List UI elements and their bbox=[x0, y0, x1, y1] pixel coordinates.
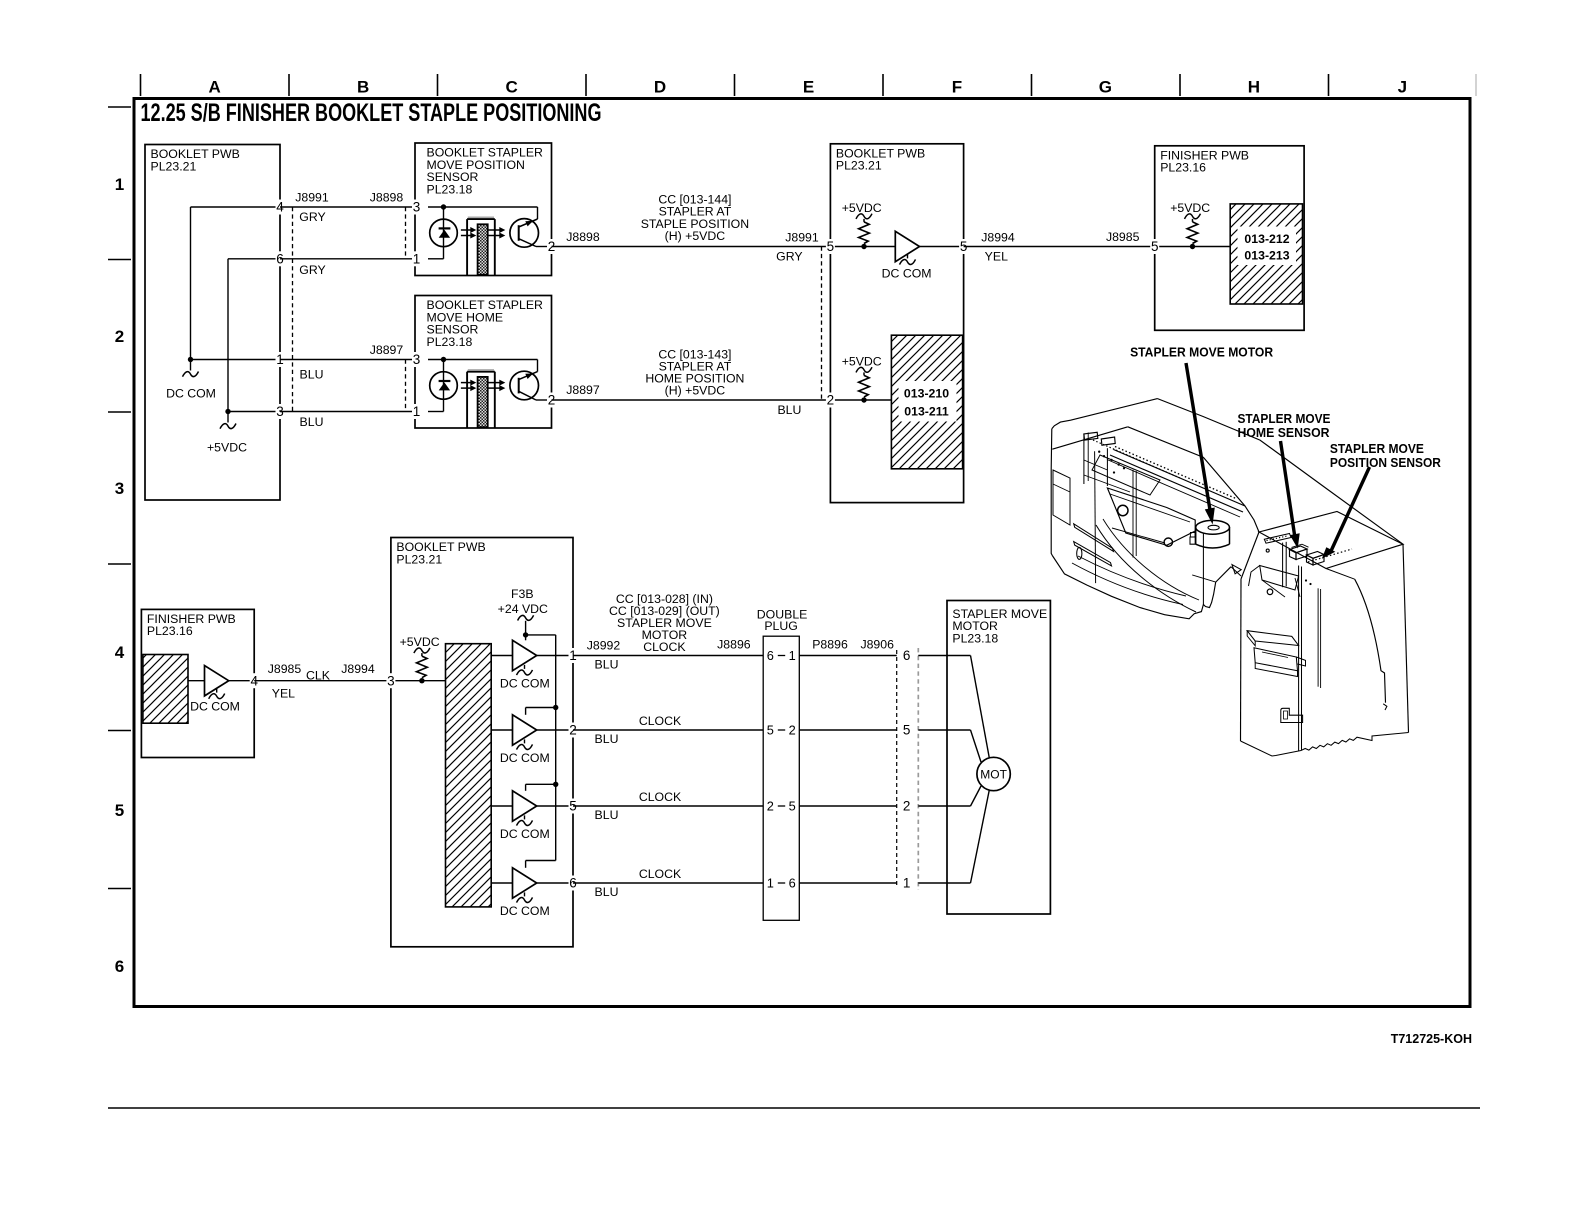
LED (emitter diode) of booklet stapler move home sensor Q2 bbox=[430, 372, 458, 400]
stapler move motor MOT1 box bbox=[947, 601, 1050, 915]
svg-text:J8994: J8994 bbox=[981, 230, 1015, 244]
junction: booklet stapler move home sensor Q2 LED anode node bbox=[441, 357, 446, 362]
wire: hatch block to buffer U7 bbox=[491, 882, 512, 884]
booklet PWB PL23.21 (left) bbox=[145, 145, 280, 501]
svg-text:2: 2 bbox=[903, 799, 911, 814]
wire: double plug to P8896 (row 2) bbox=[799, 805, 896, 807]
pin 5 left of booklet PWB right bbox=[826, 239, 835, 254]
svg-text:CLOCK: CLOCK bbox=[639, 790, 682, 804]
buffer U4 bbox=[513, 640, 537, 670]
connector J8991 boundary (dashed) bbox=[293, 191, 329, 412]
label J8896 bbox=[717, 637, 751, 651]
label BLU (pin1 wire) bbox=[300, 367, 324, 381]
svg-text:PL23.18: PL23.18 bbox=[952, 631, 998, 645]
label BLU (clock wire 4) bbox=[595, 885, 619, 899]
border frame bbox=[134, 99, 1470, 1007]
ground DC COM (buffer U5) bbox=[500, 739, 550, 765]
label J8992 bbox=[587, 638, 621, 652]
column tick marks bbox=[141, 74, 1477, 96]
label J8985 (wire) bbox=[1106, 230, 1140, 244]
double plug pins 6-1 bbox=[766, 648, 797, 663]
svg-text:J8992: J8992 bbox=[587, 638, 621, 652]
svg-text:013-213: 013-213 bbox=[1244, 249, 1289, 263]
svg-text:5: 5 bbox=[827, 239, 835, 254]
svg-text:1: 1 bbox=[903, 876, 911, 891]
wire: +24V feed to buffer U5 bbox=[526, 708, 556, 715]
junction: pin6/pin3 +5VDC node bbox=[225, 409, 230, 414]
svg-text:GRY: GRY bbox=[299, 210, 325, 224]
callout: stapler move motor bbox=[1130, 344, 1274, 524]
pin 2 of J8906 bbox=[903, 799, 911, 814]
svg-text:CLOCK: CLOCK bbox=[639, 714, 682, 728]
resistor R4 +5VDC pull-up bbox=[400, 635, 440, 683]
junction: +24V rail node B bbox=[553, 705, 558, 710]
svg-text:CLOCK: CLOCK bbox=[643, 640, 686, 654]
finisher PWB PL23.16 (bottom left) bbox=[141, 609, 254, 757]
buffer U3 bbox=[205, 666, 229, 696]
svg-text:6: 6 bbox=[767, 648, 774, 663]
pin 3 of J8994 bbox=[386, 673, 395, 688]
pin 3 of booklet stapler move position sensor Q1 bbox=[412, 200, 421, 215]
svg-text:CLK: CLK bbox=[306, 669, 331, 683]
label GRY (pin6 wire) bbox=[299, 263, 325, 277]
svg-text:J8897: J8897 bbox=[370, 343, 404, 357]
svg-text:MOT: MOT bbox=[980, 768, 1007, 782]
svg-text:BLU: BLU bbox=[595, 885, 619, 899]
resistor R2 +5VDC pull-up bbox=[842, 354, 882, 402]
svg-text:PL23.21: PL23.21 bbox=[836, 159, 882, 173]
resistor R3 +5VDC pull-up bbox=[1170, 201, 1210, 249]
svg-text:PL23.21: PL23.21 bbox=[396, 552, 442, 566]
pin 1 of booklet stapler move home sensor Q2 bbox=[412, 404, 421, 419]
label BLU (clock wire 2) bbox=[595, 732, 619, 746]
wire: motor lead 6 bbox=[947, 656, 990, 760]
svg-text:1: 1 bbox=[789, 648, 796, 663]
svg-text:3: 3 bbox=[115, 479, 124, 498]
svg-text:H: H bbox=[1248, 78, 1260, 97]
svg-text:E: E bbox=[803, 78, 814, 97]
svg-text:D: D bbox=[654, 78, 666, 97]
interrupter flag of booklet stapler move home sensor Q2 bbox=[478, 377, 488, 427]
wire: J8992-5 to double plug (BLU) bbox=[573, 805, 763, 807]
svg-text:J8906: J8906 bbox=[860, 637, 894, 651]
net label CLK bbox=[306, 669, 331, 683]
svg-text:STAPLER MOVE: STAPLER MOVE bbox=[1238, 411, 1331, 426]
pin 6 of J8991 bbox=[276, 251, 285, 266]
booklet stapler move home sensor Q2 box bbox=[415, 296, 552, 429]
booklet PWB PL23.21 (right) bbox=[830, 144, 963, 503]
label YEL (wire) bbox=[985, 249, 1008, 263]
svg-text:PL23.16: PL23.16 bbox=[1160, 161, 1206, 175]
svg-text:PL23.21: PL23.21 bbox=[151, 159, 197, 173]
svg-text:2: 2 bbox=[789, 723, 796, 738]
phototransistor of booklet stapler move home sensor Q2 bbox=[510, 360, 552, 401]
row numbers 1-6 bbox=[115, 175, 125, 976]
wire: +24V feed to buffer U6 bbox=[526, 784, 556, 791]
svg-text:1: 1 bbox=[413, 252, 421, 267]
label BLU (clock wire 1) bbox=[595, 657, 619, 671]
node CC [013-143] home position annotation bbox=[645, 347, 744, 397]
wire: double plug to P8896 (row 5) bbox=[799, 729, 896, 731]
svg-text:J8898: J8898 bbox=[370, 191, 404, 205]
wire: +24V rail bbox=[526, 635, 556, 861]
pin 4 of J8985 bbox=[250, 673, 259, 688]
wire: pin4 net (GRY) inside booklet PWB bbox=[191, 207, 281, 360]
wire: hatch block to buffer U6 bbox=[491, 805, 512, 807]
svg-text:P8896: P8896 bbox=[812, 637, 848, 651]
svg-text:1: 1 bbox=[413, 404, 421, 419]
mechanical view: finisher/stapler assembly bbox=[1051, 399, 1408, 756]
double plug pins 1-6 bbox=[766, 876, 797, 891]
svg-text:3: 3 bbox=[387, 673, 395, 688]
callout: stapler move position sensor bbox=[1322, 441, 1442, 559]
svg-text:+5VDC: +5VDC bbox=[842, 354, 882, 368]
wire: hatch block to buffer U5 bbox=[491, 729, 512, 731]
svg-text:+5VDC: +5VDC bbox=[400, 635, 440, 649]
svg-text:BLU: BLU bbox=[300, 415, 324, 429]
svg-text:B: B bbox=[357, 78, 369, 97]
interrupter flag of booklet stapler move position sensor Q1 bbox=[478, 224, 488, 274]
wire: pin3 to logic block bbox=[392, 680, 446, 682]
wire: J8994-5 to J8985-5 (YEL) bbox=[964, 246, 1155, 248]
svg-text:3: 3 bbox=[413, 200, 421, 215]
pin 6 of J8992 bbox=[569, 876, 578, 891]
svg-text:6: 6 bbox=[903, 648, 911, 663]
junction: +24V rail node C bbox=[553, 782, 558, 787]
drawing number T712725-KOH bbox=[1391, 1032, 1472, 1046]
svg-text:PL23.18: PL23.18 bbox=[427, 182, 473, 196]
pin 5 of J8992 bbox=[569, 799, 578, 814]
svg-text:GRY: GRY bbox=[299, 263, 325, 277]
svg-text:12.25 S/B FINISHER BOOKLET STA: 12.25 S/B FINISHER BOOKLET STAPLE POSITI… bbox=[141, 99, 602, 127]
hatch logic block (center booklet PWB) bbox=[446, 644, 492, 907]
svg-text:DC COM: DC COM bbox=[500, 904, 550, 918]
svg-text:BLU: BLU bbox=[595, 808, 619, 822]
pin 2 of booklet stapler move home sensor Q2 bbox=[547, 393, 556, 408]
svg-text:2: 2 bbox=[767, 799, 774, 814]
pin 1 of J8992 bbox=[569, 648, 578, 663]
booklet stapler move position sensor Q1 box bbox=[415, 143, 552, 276]
wire: motor lead 1 bbox=[947, 789, 990, 883]
wire: buffer output to pin5 right bbox=[920, 246, 964, 248]
buffer U7 bbox=[513, 868, 537, 898]
wire: buffer U3 output to pin4 bbox=[229, 680, 255, 682]
pin 2 of booklet stapler move position sensor Q1 bbox=[547, 239, 556, 254]
wire: J8991-4 to J8898-3 (GRY) bbox=[280, 206, 415, 208]
connector J8991 right boundary (dashed) bbox=[821, 247, 823, 401]
wire: motor lead 2 bbox=[947, 786, 981, 806]
wire: J8906-2 into motor box bbox=[918, 805, 947, 807]
svg-text:DC COM: DC COM bbox=[500, 827, 550, 841]
svg-text:+5VDC: +5VDC bbox=[1170, 201, 1210, 215]
wire: J8992-6 to double plug (BLU) bbox=[573, 882, 763, 884]
wire: buffer U7 output to pin 6 bbox=[537, 882, 573, 884]
svg-text:3: 3 bbox=[413, 352, 421, 367]
ground DC COM (buffer U2) bbox=[882, 254, 932, 280]
svg-text:013-211: 013-211 bbox=[904, 405, 949, 419]
connector P8896 boundary (dashed) bbox=[812, 637, 896, 888]
label J8994 (wire) bbox=[981, 230, 1015, 244]
wire: booklet stapler move home sensor Q2 LED cathode to pin1 bbox=[428, 360, 444, 412]
svg-text:DC COM: DC COM bbox=[166, 386, 216, 400]
ground DC COM (buffer U7) bbox=[500, 892, 550, 918]
svg-text:J8897: J8897 bbox=[566, 383, 600, 397]
svg-text:J8991: J8991 bbox=[785, 231, 819, 245]
row tick marks bbox=[108, 107, 131, 889]
svg-text:POSITION SENSOR: POSITION SENSOR bbox=[1330, 455, 1442, 470]
label J8994 (CLK wire) bbox=[341, 662, 375, 676]
ground DC COM (buffer U3) bbox=[190, 689, 240, 714]
svg-text:(H) +5VDC: (H) +5VDC bbox=[665, 229, 726, 243]
svg-text:J8896: J8896 bbox=[717, 637, 751, 651]
pin 5 of finisher PWB bbox=[1150, 239, 1159, 254]
wire: J8906-5 into motor box bbox=[918, 729, 947, 731]
svg-text:+5VDC: +5VDC bbox=[842, 201, 882, 215]
svg-text:6: 6 bbox=[789, 876, 796, 891]
wire: J8906-1 into motor box bbox=[918, 882, 947, 884]
svg-text:1: 1 bbox=[767, 876, 774, 891]
net label CLOCK (wire 3) bbox=[639, 790, 682, 804]
svg-text:4: 4 bbox=[115, 643, 125, 662]
svg-text:PL23.16: PL23.16 bbox=[147, 624, 193, 638]
svg-text:F3B: F3B bbox=[511, 587, 534, 601]
ground DC COM (buffer U4) bbox=[500, 665, 550, 691]
svg-text:DC COM: DC COM bbox=[500, 677, 550, 691]
svg-text:DC COM: DC COM bbox=[190, 700, 240, 714]
connector J8906 boundary (gray dashed) bbox=[860, 637, 918, 890]
resistor R1 +5VDC pull-up bbox=[842, 201, 882, 249]
column letters A-J bbox=[209, 78, 1407, 97]
svg-text:BLU: BLU bbox=[300, 367, 324, 381]
svg-text:5: 5 bbox=[1151, 239, 1159, 254]
wire: pin2 to fault box 013-210 bbox=[832, 399, 891, 401]
title bbox=[141, 99, 602, 127]
wire: pin1 net inside booklet PWB bbox=[191, 359, 281, 361]
buffer U5 bbox=[513, 715, 537, 745]
motor MOT symbol bbox=[977, 757, 1010, 790]
wire: +24V feed to buffer U7 bbox=[526, 861, 556, 868]
double plug pins 2-5 bbox=[766, 799, 797, 814]
svg-text:BLU: BLU bbox=[595, 732, 619, 746]
double plug pins 5-2 bbox=[766, 723, 797, 738]
pin 5 right of booklet PWB right bbox=[959, 239, 968, 254]
pin 1 of booklet stapler move position sensor Q1 bbox=[412, 251, 421, 266]
net label CLOCK (wire 4) bbox=[639, 867, 682, 881]
svg-text:5: 5 bbox=[903, 723, 911, 738]
label J8985 (CLK wire) bbox=[268, 662, 302, 676]
svg-text:2: 2 bbox=[827, 393, 835, 408]
pin 3 of J8991 bbox=[276, 404, 285, 419]
wire: booklet stapler move position sensor Q1 LED cathode to pin1 bbox=[428, 207, 444, 259]
power +5VDC (left booklet PWB) bbox=[207, 412, 247, 455]
label BLU (clock wire 3) bbox=[595, 808, 619, 822]
pin 3 of booklet stapler move home sensor Q2 bbox=[412, 352, 421, 367]
svg-text:C: C bbox=[505, 78, 517, 97]
node CC motor clock annotation bbox=[609, 592, 720, 654]
connector J8897 boundary (dashed) bbox=[370, 343, 406, 412]
svg-text:2: 2 bbox=[115, 327, 124, 346]
callout: stapler move home sensor bbox=[1238, 411, 1331, 549]
wire: J8991-6 to J8898-1 (GRY) bbox=[280, 258, 415, 260]
connector J8898 boundary (dashed) bbox=[370, 191, 406, 259]
svg-text:(H) +5VDC: (H) +5VDC bbox=[665, 383, 726, 397]
wire: hatch block to buffer U4 bbox=[491, 655, 512, 657]
finisher PWB PL23.16 (top right) bbox=[1155, 146, 1304, 330]
wire: J8992-2 to double plug (BLU) bbox=[573, 729, 763, 731]
label GRY (pin4 wire) bbox=[299, 210, 325, 224]
svg-text:BLU: BLU bbox=[777, 403, 801, 417]
svg-text:F: F bbox=[952, 78, 962, 97]
svg-text:HOME SENSOR: HOME SENSOR bbox=[1238, 425, 1331, 440]
fault/hatch box (finisher PWB) bbox=[143, 655, 188, 724]
ground DC COM (left booklet PWB) bbox=[166, 360, 216, 401]
label GRY (signal wire) bbox=[776, 250, 802, 264]
light arrows of booklet stapler move position sensor Q1 bbox=[461, 227, 505, 239]
junction: pin4/pin1 DC COM node bbox=[188, 357, 193, 362]
pin 2 of J8992 bbox=[569, 723, 578, 738]
svg-text:+24 VDC: +24 VDC bbox=[498, 602, 548, 616]
buffer U6 bbox=[513, 791, 537, 821]
svg-text:5: 5 bbox=[767, 723, 774, 738]
svg-text:CLOCK: CLOCK bbox=[639, 867, 682, 881]
LED (emitter diode) of booklet stapler move position sensor Q1 bbox=[430, 219, 458, 247]
wire: J8991-3 to J8897-1 (BLU) bbox=[280, 411, 415, 413]
fuse F3B +24 VDC supply bbox=[498, 587, 548, 640]
svg-text:5: 5 bbox=[115, 801, 124, 820]
wire: J8991-1 to J8897-3 (BLU) bbox=[280, 359, 415, 361]
svg-text:GRY: GRY bbox=[776, 250, 802, 264]
wire: hatch box to buffer U3 bbox=[188, 680, 205, 682]
wire: J8897-2 to J8991-2 (BLU) home position signal bbox=[552, 399, 831, 401]
ground DC COM (buffer U6) bbox=[500, 815, 550, 841]
pin 4 of J8991 bbox=[276, 200, 285, 215]
wire: pin5 to fault box 013-212 bbox=[1156, 246, 1230, 248]
wire: buffer U6 output to pin 5 bbox=[537, 805, 573, 807]
label YEL (CLK wire) bbox=[272, 687, 295, 701]
svg-text:PLUG: PLUG bbox=[764, 619, 798, 633]
svg-text:YEL: YEL bbox=[272, 687, 295, 701]
wire: buffer U4 output to pin 1 bbox=[537, 655, 573, 657]
svg-text:J8898: J8898 bbox=[566, 230, 600, 244]
svg-text:T712725-KOH: T712725-KOH bbox=[1391, 1032, 1472, 1046]
label BLU (pin3 wire) bbox=[300, 415, 324, 429]
svg-text:+5VDC: +5VDC bbox=[207, 441, 247, 455]
double plug connector bbox=[757, 607, 808, 920]
svg-text:BLU: BLU bbox=[595, 657, 619, 671]
svg-text:DC COM: DC COM bbox=[500, 751, 550, 765]
svg-text:DC COM: DC COM bbox=[882, 267, 932, 281]
wire: booklet stapler move position sensor Q1 pin3 rail bbox=[428, 206, 538, 208]
svg-text:STAPLER MOVE MOTOR: STAPLER MOVE MOTOR bbox=[1130, 344, 1274, 359]
fault code box 013-212/013-213 bbox=[1230, 204, 1302, 304]
wire: booklet stapler move home sensor Q2 pin3 rail bbox=[428, 359, 538, 361]
svg-text:013-212: 013-212 bbox=[1244, 232, 1289, 246]
booklet PWB PL23.21 (center) bbox=[391, 538, 573, 947]
wire: J8906-6 into motor box bbox=[918, 655, 947, 657]
pin 6 of J8906 bbox=[903, 648, 911, 663]
pin 2 of booklet PWB right bbox=[826, 393, 835, 408]
phototransistor of booklet stapler move position sensor Q1 bbox=[510, 207, 552, 247]
pin 5 of J8906 bbox=[903, 723, 911, 738]
label J8897 (signal wire) bbox=[566, 383, 600, 397]
wire: J8992-1 to double plug (BLU) bbox=[573, 655, 763, 657]
svg-text:J: J bbox=[1398, 78, 1407, 97]
wire: pin5 to buffer input bbox=[832, 246, 895, 248]
svg-text:J8985: J8985 bbox=[268, 662, 302, 676]
node CC [013-144] staple position annotation bbox=[641, 192, 749, 243]
label BLU (signal wire) bbox=[777, 403, 801, 417]
label J8991 (right end) bbox=[785, 231, 819, 245]
wire: motor lead 5 bbox=[947, 730, 981, 762]
wire: pin3 net inside booklet PWB bbox=[228, 411, 280, 413]
svg-text:PL23.18: PL23.18 bbox=[427, 335, 473, 349]
fault code box 013-210/013-211 bbox=[891, 335, 962, 469]
svg-text:J8991: J8991 bbox=[295, 191, 329, 205]
wire: pin6 net (GRY) inside booklet PWB bbox=[228, 259, 280, 412]
net label CLOCK (wire 2) bbox=[639, 714, 682, 728]
slot channel of booklet stapler move home sensor Q2 bbox=[467, 370, 495, 428]
slot channel of booklet stapler move position sensor Q1 bbox=[467, 217, 495, 275]
footer rule bbox=[108, 1107, 1480, 1109]
svg-text:1: 1 bbox=[115, 175, 124, 194]
svg-text:YEL: YEL bbox=[985, 249, 1008, 263]
buffer U2 bbox=[895, 231, 919, 261]
wire: buffer U5 output to pin 2 bbox=[537, 729, 573, 731]
svg-text:STAPLER MOVE: STAPLER MOVE bbox=[1330, 441, 1424, 456]
pin 1 of J8906 bbox=[903, 876, 911, 891]
svg-text:G: G bbox=[1099, 78, 1112, 97]
light arrows of booklet stapler move home sensor Q2 bbox=[461, 380, 505, 392]
junction: booklet stapler move position sensor Q1 LED anode node bbox=[441, 204, 446, 209]
wire: J8898-2 to J8991-5 (GRY) staple position signal bbox=[552, 246, 831, 248]
svg-text:013-210: 013-210 bbox=[904, 387, 949, 401]
wire: double plug to P8896 (row 1) bbox=[799, 882, 896, 884]
pin 1 of J8991 bbox=[276, 352, 285, 367]
svg-text:5: 5 bbox=[789, 799, 796, 814]
junction: +24V rail node A bbox=[523, 632, 528, 637]
svg-text:J8994: J8994 bbox=[341, 662, 375, 676]
svg-text:6: 6 bbox=[115, 957, 124, 976]
wire: J8985-4 to J8994-3 (YEL) CLK bbox=[254, 680, 391, 682]
label J8898 (signal wire) bbox=[566, 230, 600, 244]
wire: double plug to P8896 (row 6) bbox=[799, 655, 896, 657]
svg-text:J8985: J8985 bbox=[1106, 230, 1140, 244]
svg-text:A: A bbox=[209, 78, 221, 97]
